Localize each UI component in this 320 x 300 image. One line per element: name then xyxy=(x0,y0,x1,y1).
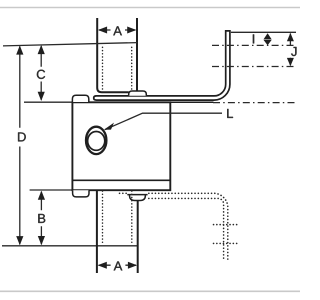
dimension D line xyxy=(19,47,21,245)
pipe bottom: hidden inner line right (dotted) xyxy=(131,191,133,245)
extension line top-left (slightly sloped) xyxy=(3,43,137,46)
dimension D bottom arrowhead xyxy=(16,236,23,245)
pipe bottom: hidden inner line left (dotted) xyxy=(102,191,104,245)
dimension C line xyxy=(40,46,42,99)
pipe bottom: left outer line xyxy=(96,191,98,274)
hole outer ellipse xyxy=(86,127,106,154)
pipe top: hidden inner line right (dotted) xyxy=(131,47,133,95)
label D xyxy=(18,132,26,141)
bump tab over pipe right line xyxy=(129,91,147,96)
dimension J bottom arrowhead xyxy=(287,58,294,66)
dotted hole tick lower on alternate bracket xyxy=(214,242,240,244)
dimension B bottom arrowhead xyxy=(38,236,45,245)
bottom middle bowl tab xyxy=(127,195,147,201)
bottom gray border line xyxy=(0,290,300,292)
clamp block body xyxy=(72,102,170,190)
dotted alternate bracket: outer (top) line with bend xyxy=(120,193,228,259)
label A (bottom) xyxy=(114,261,123,270)
dimension A (top) left arrowhead xyxy=(98,27,107,34)
extension line mid-left (block top level) xyxy=(24,101,72,103)
label L xyxy=(227,109,233,118)
dimension J line xyxy=(289,34,291,66)
clamp block bottom plate line xyxy=(72,179,170,181)
saddle piece left of bump xyxy=(102,91,129,93)
top-left tab on block xyxy=(72,95,88,102)
pipe top: right outer line xyxy=(136,18,138,91)
centerline upper (I level) xyxy=(212,44,296,46)
label B xyxy=(38,214,45,223)
block top hidden edge extending right xyxy=(170,101,213,103)
pipe top: hidden inner line left (dotted) xyxy=(102,47,104,95)
L-bracket (horizontal plate + vertical arm) xyxy=(94,31,230,100)
label A (top) xyxy=(113,26,122,35)
top gray border line xyxy=(0,7,300,9)
dimension C bottom arrowhead xyxy=(38,92,45,101)
bottom-left tab under block xyxy=(73,190,89,197)
bottom baseline extension line xyxy=(2,245,138,247)
centerline long (plate level) xyxy=(213,102,297,104)
label C xyxy=(37,70,45,79)
dimension C top arrowhead xyxy=(38,45,45,54)
dimension A (bottom) line xyxy=(99,264,136,266)
dimension B line xyxy=(40,192,42,245)
dimension A (top) right arrowhead xyxy=(127,27,136,34)
pipe top: left outer line curving into saddle xyxy=(97,18,129,92)
dotted alternate bracket: inner (bottom) line with bend xyxy=(149,198,224,259)
dotted hole tick upper on alternate bracket xyxy=(214,224,240,226)
extension line left of block bottom xyxy=(30,189,73,191)
leader arrowhead xyxy=(104,123,114,130)
dimension D top arrowhead xyxy=(16,45,23,54)
dimension A (bottom) right arrowhead xyxy=(128,262,137,269)
label J xyxy=(291,47,296,56)
pipe bottom: right outer line xyxy=(137,201,139,273)
dimension B top arrowhead xyxy=(38,191,45,200)
centerline middle (J level) xyxy=(212,66,296,68)
dimension I arrowheads (diamond) xyxy=(264,33,272,39)
extension line top-right xyxy=(231,31,296,33)
dimension J top arrowhead xyxy=(287,33,294,41)
hole inner ellipse xyxy=(88,132,105,151)
leader line for L xyxy=(105,113,222,129)
dimension A (top) line xyxy=(99,29,135,31)
label I xyxy=(253,34,254,43)
dimension A (bottom) left arrowhead xyxy=(98,262,107,269)
